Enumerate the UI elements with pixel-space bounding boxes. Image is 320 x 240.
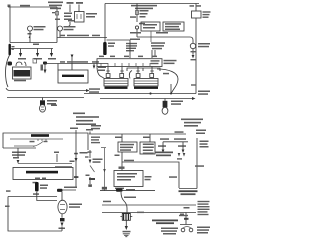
text RIGHT BATTERY bbox=[134, 87, 158, 89]
text compressor right bbox=[137, 212, 144, 214]
wire long line 2 left bbox=[7, 97, 84, 99]
text HOT AT ALL TIMES bbox=[48, 2, 63, 10]
text right legend hot in run bbox=[181, 119, 203, 127]
text A6 bbox=[28, 33, 32, 35]
switch wiper arc bbox=[33, 142, 43, 147]
text right of switch box bbox=[91, 125, 101, 129]
text high relay control bbox=[12, 152, 26, 159]
text legend block bbox=[73, 113, 99, 126]
wire mid vertical bbox=[101, 148, 107, 192]
wire fuse feed right bbox=[78, 5, 80, 13]
generator G1 bbox=[58, 70, 88, 83]
wire across to regulator bbox=[137, 37, 193, 43]
heavy cable bar bbox=[103, 4, 106, 56]
wire x57 drop + fuse marks bbox=[52, 7, 59, 38]
text legend line 0 bbox=[51, 105, 57, 107]
switch inner bus bbox=[10, 138, 63, 140]
box fuse block bbox=[140, 142, 155, 154]
junction block JB bbox=[97, 59, 162, 67]
charge indicator L2 bbox=[58, 26, 63, 31]
text BRN WHT 1 bbox=[130, 32, 141, 34]
in-line box B2 bbox=[163, 22, 184, 31]
hi switch column bbox=[85, 150, 95, 184]
text ground label dark bbox=[179, 190, 198, 195]
resistor dark bar bbox=[35, 182, 39, 192]
heater fuse F3 bbox=[136, 4, 139, 23]
fusible link box F2 bbox=[192, 11, 202, 18]
wire fusible link drop bbox=[195, 4, 197, 12]
wire mid bus bbox=[57, 37, 107, 39]
text HI BRN bbox=[178, 145, 186, 147]
junction C2 marks bbox=[119, 167, 125, 169]
connector C100 label bbox=[67, 2, 74, 4]
text 14 ORN fuse left bbox=[130, 16, 136, 18]
compressor ground chain bbox=[123, 220, 131, 236]
text LO ORN bbox=[158, 145, 166, 147]
junction bat cable bbox=[170, 84, 172, 95]
battery cable right bbox=[157, 69, 178, 93]
junction block bar bbox=[9, 44, 15, 56]
text drop2 bbox=[34, 58, 42, 60]
junction dot mid line bbox=[149, 92, 151, 94]
text BLOWER MOTOR bbox=[69, 204, 82, 208]
wire label 2 RED gen bbox=[60, 61, 65, 63]
motor ground chain bbox=[59, 214, 66, 231]
text voltmeter label bbox=[198, 43, 210, 47]
wire battery bracket bbox=[127, 68, 160, 71]
pressure switch PS1 bbox=[180, 217, 193, 232]
wire switch drop bbox=[17, 148, 20, 164]
text to blower col bbox=[93, 159, 103, 163]
fusible link box F1 bbox=[75, 12, 85, 23]
text BLK right bus bbox=[191, 84, 196, 85]
text line5 right bbox=[198, 201, 210, 208]
wire left return loop bbox=[8, 197, 62, 232]
battery left posts bbox=[106, 67, 124, 78]
thermal limiter box bbox=[141, 22, 160, 31]
wire long line 3 bbox=[84, 93, 196, 95]
text 5 ORN C100 block bbox=[200, 141, 209, 148]
wire distribution bus bbox=[11, 49, 53, 54]
wire resistor top link bbox=[18, 164, 72, 167]
text right of switch box lower bbox=[91, 137, 100, 144]
text BRN WHT 3 bbox=[130, 39, 140, 41]
junction line6 bbox=[179, 213, 189, 220]
splice arrows blower controls bbox=[177, 153, 185, 160]
text BRN WHT 2 bbox=[156, 32, 168, 34]
text below bar bbox=[33, 193, 39, 195]
switch lower line bbox=[3, 146, 36, 148]
switch contact marks bbox=[38, 139, 48, 142]
text junction block label bbox=[164, 60, 177, 64]
text starter motor right bbox=[171, 101, 183, 105]
text right legend 2 bbox=[196, 130, 206, 135]
text BLOWER SWITCH bbox=[31, 134, 49, 137]
wire bus top-left bbox=[8, 6, 57, 8]
battery terminal blob bbox=[8, 62, 13, 66]
wire top bus right bbox=[105, 3, 199, 5]
text OFF bbox=[30, 141, 35, 143]
wire 14 ORN label mid bbox=[86, 129, 93, 134]
wire ground join bbox=[179, 188, 197, 190]
wire fuse feed left bbox=[69, 5, 71, 13]
battery cable mid bbox=[129, 71, 132, 79]
text coolant fan switch bbox=[34, 26, 46, 30]
arrow drop 2 bbox=[36, 53, 39, 57]
text RED right bbox=[197, 5, 202, 7]
battery BAT1 bbox=[13, 62, 32, 81]
text starter solenoid right bbox=[198, 91, 210, 95]
text drop3 bbox=[48, 58, 56, 60]
text between lines bbox=[184, 207, 190, 209]
box thermal fuse bbox=[118, 142, 137, 152]
starter motor M1 bbox=[40, 98, 46, 113]
text A8 left bbox=[5, 206, 10, 208]
wire ladder drop right bbox=[182, 142, 185, 153]
wire right main vertical bbox=[195, 18, 197, 94]
text to blower controls bbox=[155, 152, 173, 157]
text C2 14A right ladder bbox=[175, 131, 184, 133]
battery left body bbox=[104, 79, 128, 87]
arrow drop 3 bbox=[50, 53, 53, 57]
splice S210 bbox=[68, 20, 74, 27]
wire right main lower vertical bbox=[196, 138, 198, 189]
text hot in run header bbox=[131, 5, 157, 9]
text ORN bbox=[139, 23, 145, 25]
text 2 BLK mid bbox=[169, 176, 177, 178]
motor feed junction blob bbox=[57, 189, 76, 201]
battery right body bbox=[134, 79, 158, 87]
text right of pressure switch bbox=[197, 227, 210, 234]
tiny box B36 bbox=[33, 59, 37, 64]
text starter solenoid left bbox=[89, 88, 100, 93]
wire J2 drop arrow bbox=[41, 65, 47, 74]
wire labels above block bbox=[99, 56, 157, 58]
wire label run bbox=[67, 35, 89, 37]
splice blob S300 bbox=[116, 188, 123, 191]
wire ladder drop left bbox=[162, 142, 165, 153]
text A C3 junction bbox=[180, 214, 184, 216]
text left of pressure switch bbox=[161, 228, 178, 235]
wire hi feed vertical bbox=[75, 130, 77, 188]
text A8 upper bbox=[6, 190, 11, 192]
wire long line 5 bbox=[102, 204, 196, 206]
wire ladder rung bbox=[163, 141, 188, 143]
text inside junction block right bbox=[151, 60, 160, 64]
text A6 C2 bbox=[55, 19, 60, 21]
battery positive cable bbox=[6, 55, 10, 87]
text LO tap bbox=[33, 182, 38, 184]
node A tick bbox=[8, 5, 11, 8]
wire indicator to bus bbox=[59, 31, 61, 38]
wire lamp drop bbox=[29, 31, 30, 43]
junction J2 blob bbox=[43, 62, 47, 65]
wire motor feed left bbox=[8, 196, 57, 198]
wire tap 1 bbox=[115, 134, 122, 142]
wire label C210 bbox=[92, 35, 100, 37]
text line5 left bbox=[103, 201, 111, 203]
wire branch radiator box bbox=[154, 50, 156, 57]
text below relay bbox=[115, 188, 124, 190]
text line6 right bbox=[198, 209, 210, 216]
text fusible link right bbox=[203, 11, 211, 18]
text drop1 bbox=[18, 58, 26, 60]
wire left bus lower bbox=[10, 38, 57, 43]
text to hi blower relay bbox=[64, 187, 77, 189]
wire ground bus relay bbox=[100, 190, 155, 192]
arrow drop 1 bbox=[19, 53, 22, 57]
ac compressor clutch bbox=[120, 214, 132, 221]
wire L to junction block bbox=[107, 40, 131, 58]
starter motor M2 bbox=[162, 99, 168, 115]
text 14 BLK upper right bbox=[195, 165, 204, 167]
wire box1 drop bbox=[150, 31, 152, 42]
text 34 BRN pair bbox=[160, 138, 186, 140]
battery cable left bbox=[97, 67, 104, 79]
text heater fuse bbox=[140, 10, 149, 18]
text right of relay bbox=[145, 176, 152, 180]
x76 wire ticks bbox=[74, 153, 78, 178]
text to instrument cluster bbox=[151, 42, 165, 49]
text 20 ORG bbox=[80, 152, 88, 154]
wire 14 ORN drop label bbox=[70, 128, 78, 130]
wire label 2 RED bbox=[20, 5, 30, 7]
voltage regulator lamp L3 bbox=[190, 43, 195, 48]
wire long line 4 bbox=[100, 97, 196, 100]
wire long line 6 bbox=[102, 212, 196, 214]
text ac comp smudge bbox=[124, 197, 136, 199]
text LO C1 bbox=[54, 152, 59, 163]
wire generator bus bbox=[45, 64, 108, 71]
hi column lower marks bbox=[88, 178, 95, 187]
wire 2 BLK across bbox=[122, 160, 179, 188]
arrow feed x72 bbox=[71, 55, 74, 64]
blower resistor box bbox=[13, 168, 73, 180]
text right of bar bbox=[40, 185, 48, 189]
text pos label bbox=[33, 44, 39, 46]
connector C210 label bbox=[76, 2, 83, 4]
wire label 12 BLK bbox=[60, 35, 65, 37]
text RED left bbox=[190, 5, 195, 7]
wire label mid gen bbox=[67, 61, 88, 63]
blower switch box top bbox=[3, 133, 88, 150]
wire relay coil feed bbox=[115, 152, 123, 171]
wire tap 2 bbox=[143, 134, 150, 142]
wire label right gen bbox=[92, 61, 99, 63]
battery right posts bbox=[136, 67, 154, 78]
wire long line 1 left bbox=[6, 88, 90, 92]
resistor taps text bbox=[35, 178, 46, 180]
wire left drop bbox=[9, 7, 11, 43]
indicator lamp L1 bbox=[28, 26, 33, 31]
wire lo feed bbox=[37, 192, 57, 201]
wire bottom bus bbox=[89, 133, 186, 135]
blower hi relay box bbox=[114, 171, 143, 187]
wire compressor curve bbox=[121, 192, 127, 214]
text BLOWER MOTOR RESISTORS bbox=[26, 171, 58, 174]
text starter label bbox=[47, 100, 57, 105]
text bar right bbox=[108, 43, 115, 47]
arrow hi feed bbox=[70, 158, 78, 162]
text ENGINE fuse bbox=[64, 13, 72, 21]
wire cluster drop bbox=[151, 50, 153, 58]
text charge indicator bbox=[64, 26, 76, 30]
splice circle S1 bbox=[135, 26, 138, 37]
text right of gen bus bbox=[98, 67, 106, 72]
text 14 BLK right of splice bbox=[126, 189, 135, 191]
text LEFT BATTERY bbox=[105, 87, 128, 89]
wire below lamp bbox=[191, 49, 196, 61]
blower motor M3 bbox=[58, 200, 67, 214]
text fusible link bbox=[86, 13, 97, 18]
text AC heater controls bbox=[126, 43, 137, 52]
text to instrument cluster bottom bbox=[152, 220, 178, 225]
